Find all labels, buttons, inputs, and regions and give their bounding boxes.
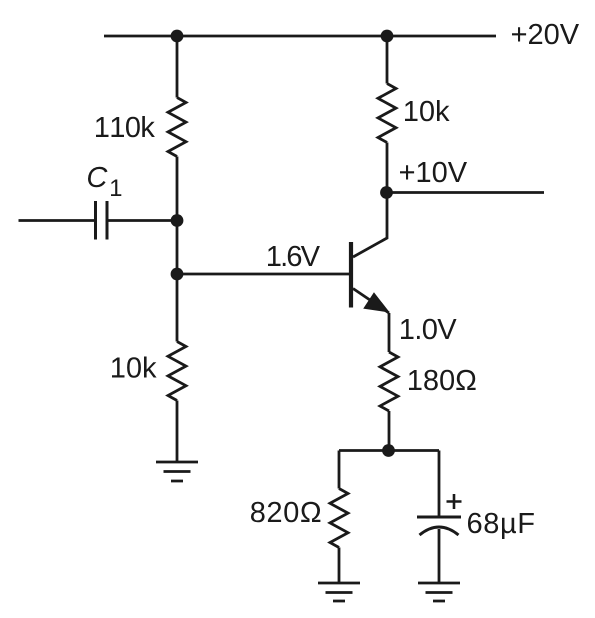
capacitor C2 bottom curved plate xyxy=(420,527,459,535)
transistor Q1 emitter arrow xyxy=(365,294,389,312)
capacitor C1 right plate xyxy=(106,201,109,240)
node collector output junction dot xyxy=(380,186,393,199)
transistor Q1 collector lead xyxy=(353,193,387,258)
capacitor C2 top plate xyxy=(417,516,461,519)
wire right rail upper segment xyxy=(386,36,389,84)
label +10V xyxy=(400,162,467,183)
wire top supply rail xyxy=(104,35,496,38)
wire emitter to 180 ohm xyxy=(388,313,391,352)
label 10k (upper right) xyxy=(405,100,450,121)
wire output lead +10V xyxy=(387,191,545,194)
wire down to 820 ohm xyxy=(338,451,341,489)
wire capacitor to ground xyxy=(438,529,441,583)
ground under capacitor xyxy=(418,583,460,601)
label 68 uF xyxy=(468,513,534,539)
resistor 110k zigzag xyxy=(168,98,186,157)
wire C1 to left rail xyxy=(109,219,178,222)
label 1.0V xyxy=(401,319,457,340)
wire down to capacitor 68uF xyxy=(438,451,441,518)
resistor 180 ohm zigzag xyxy=(380,352,398,411)
resistor 820 ohm zigzag xyxy=(330,489,348,548)
node base junction dot xyxy=(171,268,184,281)
transistor Q1 emitter lead xyxy=(353,289,389,314)
label C1 (capacitor designator) xyxy=(88,167,108,188)
wire emitter node horizontal xyxy=(339,449,439,452)
wire base wire to transistor xyxy=(177,273,349,276)
label 820 ohm xyxy=(251,502,320,523)
wire 180 ohm to emitter node xyxy=(388,411,391,451)
node emitter junction dot xyxy=(382,444,395,457)
label 110k xyxy=(96,116,155,137)
wire 820 ohm to ground xyxy=(338,548,341,584)
label C1 subscript 1 xyxy=(111,180,121,197)
label +20V xyxy=(512,24,579,45)
node top-right junction dot xyxy=(381,30,394,43)
wire right rail to collector node xyxy=(386,143,389,193)
resistor upper-right 10k zigzag xyxy=(378,84,396,143)
label 10k (lower left) xyxy=(112,357,157,378)
label 180 ohm xyxy=(409,370,476,391)
capacitor C1 left plate xyxy=(94,201,97,240)
node C1 junction dot xyxy=(171,214,184,227)
plus polarity mark xyxy=(447,494,462,509)
wire left rail upper segment xyxy=(176,36,179,98)
node top-left junction dot xyxy=(171,30,184,43)
ground under 820 ohm xyxy=(318,583,360,601)
resistor lower-left 10k zigzag xyxy=(168,342,186,401)
transistor Q1 base bar xyxy=(349,242,353,308)
label 1.6V xyxy=(268,246,320,266)
wire input lead to C1 xyxy=(19,219,95,222)
ground left ground symbol xyxy=(156,462,198,481)
wire left rail middle segment xyxy=(176,157,179,342)
wire left rail to ground xyxy=(176,401,179,463)
